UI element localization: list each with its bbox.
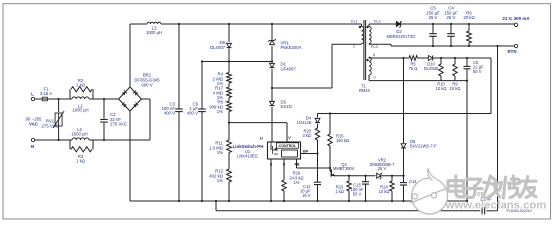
svg-text:150 kΩ: 150 kΩ [336,138,349,143]
svg-text:10 kΩ: 10 kΩ [436,86,447,91]
svg-text:BP: BP [303,150,309,154]
svg-text:600 V: 600 V [141,82,152,87]
svg-text:75 Ω: 75 Ω [409,66,418,71]
svg-text:16 V: 16 V [302,193,311,198]
svg-text:25 V: 25 V [447,15,456,20]
svg-text:FB: FB [294,163,299,167]
svg-text:RM10: RM10 [359,88,371,93]
svg-text:D: D [260,137,263,141]
svg-text:50 V: 50 V [473,69,482,74]
svg-text:10 kΩ: 10 kΩ [450,86,461,91]
svg-text:10 kΩ: 10 kΩ [379,189,390,194]
svg-text:2: 2 [374,75,376,80]
svg-text:275 VAC: 275 VAC [110,122,127,127]
svg-text:20 kΩ: 20 kΩ [463,15,475,20]
svg-text:1 kΩ: 1 kΩ [76,82,86,87]
svg-text:1: 1 [353,44,355,49]
svg-text:3 kΩ: 3 kΩ [302,133,311,138]
svg-text:1N4148: 1N4148 [297,120,312,125]
svg-text:275 VAC: 275 VAC [42,123,59,128]
svg-text:LNK413EG: LNK413EG [237,154,258,159]
svg-text:25 V: 25 V [378,166,387,171]
svg-text:ES1D: ES1D [281,104,292,109]
svg-text:CONTROL: CONTROL [279,144,297,148]
svg-text:DL4936: DL4936 [424,66,439,71]
svg-text:RTN: RTN [507,49,516,54]
svg-text:1000 µH: 1000 µH [146,30,162,35]
svg-text:6: 6 [373,52,375,57]
svg-text:1 kΩ: 1 kΩ [76,158,86,163]
svg-text:400 V: 400 V [187,111,198,116]
svg-text:VAC: VAC [29,122,39,127]
svg-text:UF4007: UF4007 [281,66,297,71]
svg-text:FL2: FL2 [374,19,381,24]
svg-text:1 kΩ: 1 kΩ [335,189,344,194]
svg-text:400 V: 400 V [164,111,175,116]
svg-text:PI-6264-042210: PI-6264-042210 [506,209,531,213]
svg-text:1%: 1% [294,180,300,185]
svg-text:25 V: 25 V [429,15,438,20]
svg-text:1000 µH: 1000 µH [72,108,88,113]
svg-text:FL1: FL1 [351,19,358,24]
svg-text:DL4007: DL4007 [210,45,226,50]
svg-text:BAV21WS-7-F: BAV21WS-7-F [410,144,437,149]
svg-text:V: V [288,136,291,140]
svg-text:3.15 A: 3.15 A [40,91,52,96]
svg-text:P6KE200A: P6KE200A [281,45,302,50]
svg-text:MBRS4201T3G: MBRS4201T3G [387,34,416,39]
svg-text:21 V, 300 mA: 21 V, 300 mA [502,16,530,21]
svg-text:FL3: FL3 [371,44,378,49]
svg-text:MMBT3904: MMBT3904 [333,166,355,171]
svg-text:1%: 1% [217,109,223,114]
svg-text:50 V: 50 V [353,192,362,197]
svg-text:1%: 1% [217,178,223,183]
svg-text:1%: 1% [217,150,223,155]
svg-text:1000 µH: 1000 µH [71,131,87,136]
svg-text:L: L [31,91,34,96]
